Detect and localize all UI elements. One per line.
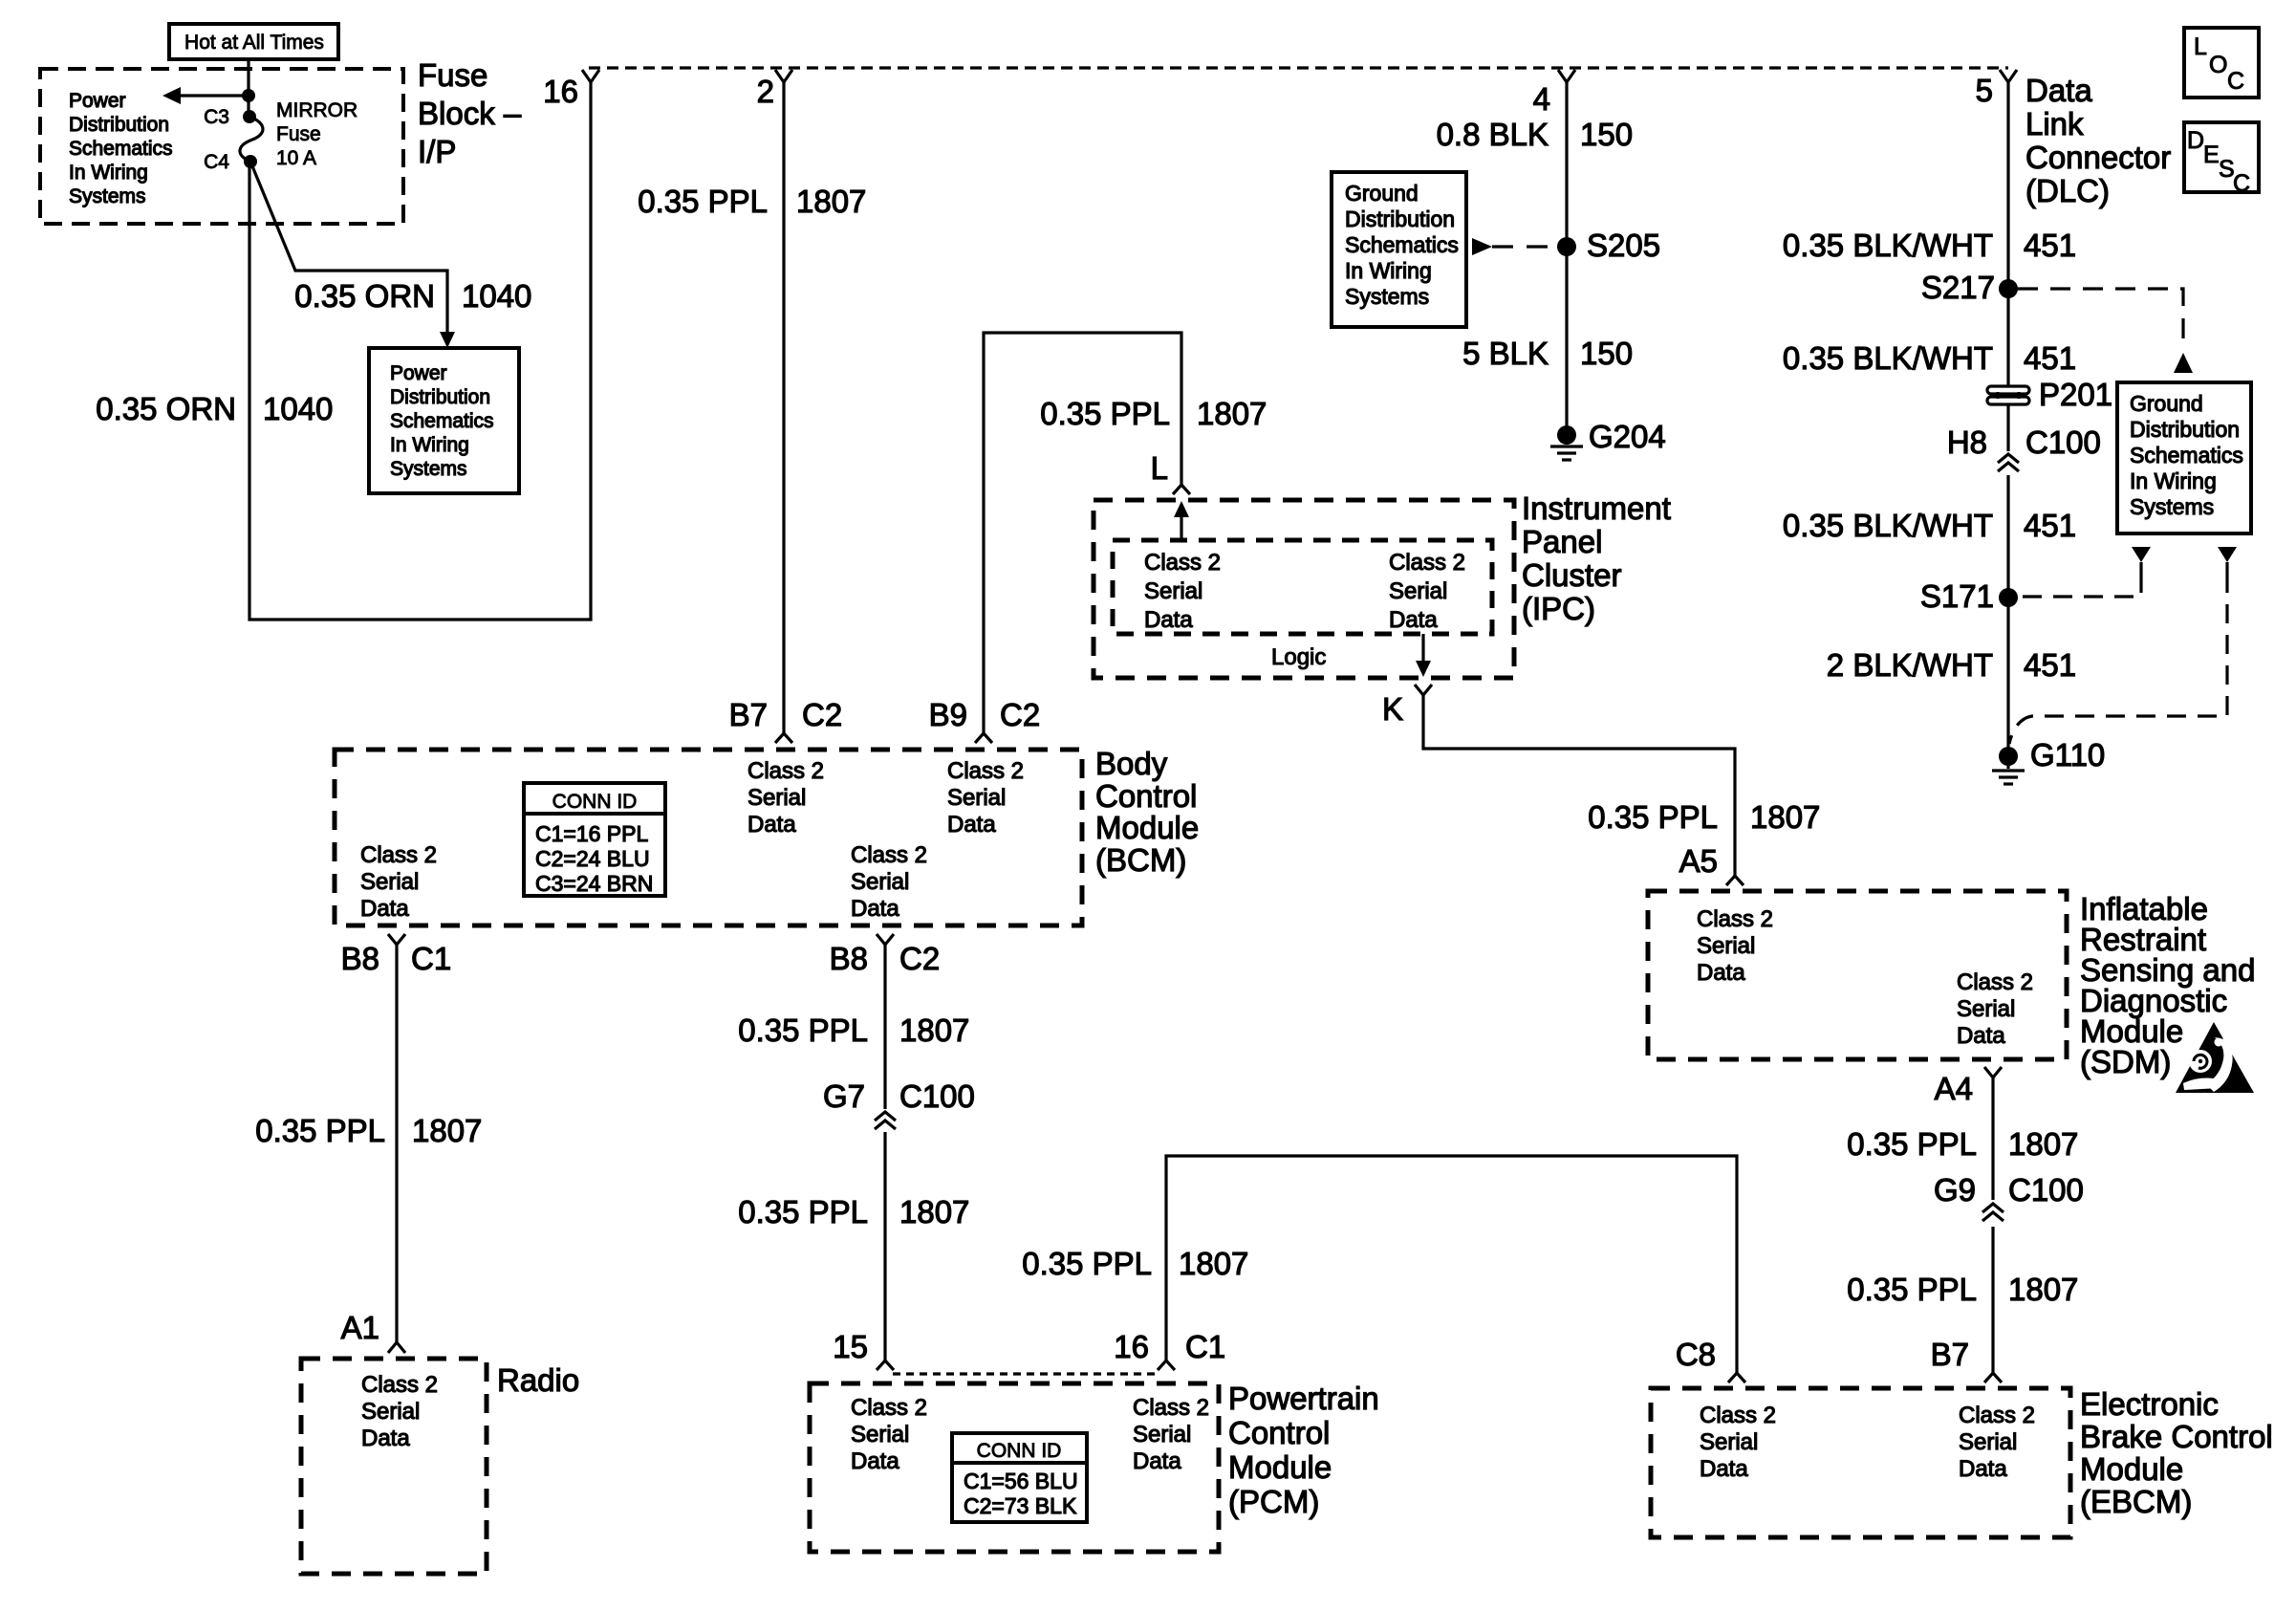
svg-text:1807: 1807	[899, 1194, 969, 1230]
dashed wire S217 to ground reference	[2018, 289, 2193, 373]
svg-text:C3=24 BRN: C3=24 BRN	[535, 871, 653, 896]
svg-text:Data: Data	[1957, 1023, 2005, 1049]
label 0.35 PPL 1807 (below G7)	[738, 1194, 969, 1230]
label 0.35 PPL 1807 (K to A5)	[1588, 799, 1820, 835]
svg-text:L: L	[2194, 33, 2207, 60]
svg-text:I/P: I/P	[418, 134, 456, 169]
svg-text:C1: C1	[1185, 1329, 1225, 1364]
label 0.35 PPL 1807 (above G7)	[738, 1012, 969, 1048]
label 0.35 BLK/WHT 451 (3)	[1783, 508, 2076, 543]
svg-text:CONN ID: CONN ID	[552, 791, 638, 813]
fuse block I/P dashed box	[40, 69, 403, 224]
svg-text:Data: Data	[360, 896, 409, 922]
svg-text:Data: Data	[1389, 607, 1438, 633]
svg-text:Serial: Serial	[1959, 1429, 2017, 1455]
svg-text:15: 15	[833, 1329, 868, 1364]
ground distribution reference box (right)	[2117, 382, 2251, 533]
splice S205	[1557, 228, 1660, 263]
power distribution reference target box	[369, 348, 519, 493]
svg-text:Serial: Serial	[1144, 578, 1202, 604]
svg-text:1807: 1807	[1197, 396, 1267, 431]
svg-text:0.35 BLK/WHT: 0.35 BLK/WHT	[1783, 508, 1993, 543]
wire C4 diagonal to reference arrow	[250, 162, 455, 348]
svg-text:0.35 BLK/WHT: 0.35 BLK/WHT	[1783, 228, 1993, 263]
IPC inner logic dashed box	[1113, 540, 1492, 634]
svg-text:Data: Data	[947, 812, 996, 838]
svg-text:0.35 PPL: 0.35 PPL	[738, 1194, 868, 1230]
svg-text:Data: Data	[1697, 960, 1745, 986]
svg-text:1807: 1807	[1179, 1246, 1248, 1281]
IPC class 2 serial data (left)	[1144, 550, 1221, 633]
svg-text:1807: 1807	[796, 184, 866, 219]
node C3	[204, 106, 256, 128]
svg-text:P201: P201	[2039, 377, 2112, 412]
svg-text:Data: Data	[2025, 73, 2092, 108]
svg-text:B7: B7	[729, 697, 768, 732]
svg-text:B9: B9	[929, 697, 967, 732]
svg-text:Module: Module	[2080, 1451, 2183, 1487]
BCM dashed box	[335, 750, 1082, 925]
svg-text:Systems: Systems	[1345, 284, 1429, 309]
svg-text:0.35 ORN: 0.35 ORN	[96, 391, 236, 426]
svg-text:A4: A4	[1935, 1071, 1973, 1106]
svg-text:1807: 1807	[412, 1113, 482, 1148]
svg-text:Power: Power	[69, 90, 126, 112]
svg-text:C: C	[2227, 68, 2244, 95]
pin 2 drop connector and wire to BCM B7	[757, 70, 792, 743]
svg-text:0.35 PPL: 0.35 PPL	[1040, 396, 1170, 431]
svg-text:In Wiring: In Wiring	[2130, 468, 2217, 493]
svg-text:Serial: Serial	[947, 785, 1006, 811]
svg-text:Electronic: Electronic	[2080, 1386, 2219, 1422]
svg-text:Serial: Serial	[1957, 996, 2015, 1022]
SDM dashed box	[1648, 891, 2067, 1059]
EBCM class 2 serial data (right)	[1959, 1403, 2035, 1482]
svg-text:Powertrain: Powertrain	[1228, 1381, 1379, 1416]
svg-text:451: 451	[2024, 508, 2076, 543]
node C4	[204, 151, 257, 173]
svg-text:Schematics: Schematics	[390, 410, 494, 432]
svg-text:Class 2: Class 2	[851, 1395, 927, 1421]
pin B8 C1 label	[341, 941, 452, 976]
svg-text:Control: Control	[1228, 1415, 1330, 1450]
ground G110	[1992, 737, 2105, 784]
in-line connector C100 pin G7	[823, 1078, 975, 1129]
svg-text:0.35 BLK/WHT: 0.35 BLK/WHT	[1783, 340, 1993, 376]
ground distribution reference box (left)	[1332, 172, 1466, 327]
svg-text:C2: C2	[899, 941, 940, 976]
svg-text:B7: B7	[1931, 1337, 1969, 1372]
pass-through grommet P201	[1987, 377, 2112, 412]
svg-text:Data: Data	[1144, 607, 1193, 633]
label 0.35 PPL 1807 (PCM 16)	[1022, 1246, 1248, 1281]
label 0.35 PPL 1807 (radio wire)	[255, 1113, 482, 1148]
svg-text:Systems: Systems	[69, 185, 146, 207]
svg-text:Instrument: Instrument	[1522, 490, 1671, 526]
pin 4 drop connector and ground wire	[1533, 70, 1575, 435]
svg-text:Distribution: Distribution	[2130, 417, 2240, 442]
svg-text:K: K	[1382, 691, 1403, 727]
PCM dashed box	[810, 1383, 1219, 1552]
svg-text:150: 150	[1580, 336, 1633, 371]
svg-text:451: 451	[2024, 228, 2076, 263]
label 0.35 ORN 1040 (upper)	[294, 278, 531, 314]
svg-text:Module: Module	[1095, 810, 1199, 845]
svg-text:E: E	[2203, 142, 2220, 168]
pin B8 C2 label	[830, 941, 941, 976]
svg-text:Class 2: Class 2	[1957, 969, 2033, 995]
svg-text:451: 451	[2024, 647, 2076, 683]
svg-text:Fuse: Fuse	[276, 123, 321, 145]
svg-text:O: O	[2209, 52, 2227, 78]
svg-text:Class 2: Class 2	[360, 842, 437, 868]
IPC internal arrow out of logic (K)	[1416, 634, 1431, 677]
svg-text:Class 2: Class 2	[1959, 1403, 2035, 1428]
svg-text:Serial: Serial	[360, 869, 419, 895]
svg-text:S205: S205	[1587, 228, 1660, 263]
svg-text:Class 2: Class 2	[1389, 550, 1465, 576]
label 0.35 PPL 1807 (pin 2)	[638, 184, 866, 219]
svg-text:A1: A1	[341, 1310, 379, 1345]
SDM class 2 serial data (bottom right)	[1957, 969, 2033, 1049]
svg-text:0.35 PPL: 0.35 PPL	[1847, 1272, 1977, 1307]
svg-text:Schematics: Schematics	[69, 138, 173, 160]
label 0.35 BLK/WHT 451 (1)	[1783, 228, 2076, 263]
BCM class 2 serial data (bottom middle)	[851, 842, 927, 922]
pin 16 drop connector	[543, 70, 599, 109]
svg-text:A5: A5	[1679, 843, 1718, 879]
ground G204	[1550, 419, 1666, 460]
svg-text:C1=16 PPL: C1=16 PPL	[535, 821, 648, 846]
svg-text:1040: 1040	[462, 278, 531, 314]
svg-text:In Wiring: In Wiring	[390, 434, 469, 456]
wire BCM B9 to IPC L	[975, 333, 1190, 743]
svg-text:Class 2: Class 2	[361, 1372, 438, 1398]
svg-text:CONN ID: CONN ID	[977, 1440, 1062, 1462]
IPC class 2 serial data (right)	[1389, 550, 1465, 633]
IPC outer dashed box	[1094, 500, 1514, 678]
svg-text:2: 2	[757, 74, 774, 109]
in-line connector C100 pin H8	[1947, 425, 2101, 471]
svg-text:Logic: Logic	[1271, 644, 1326, 670]
module label Electronic Brake Control Module (EBCM)	[2080, 1386, 2273, 1519]
svg-text:B8: B8	[341, 941, 379, 976]
svg-text:Distribution: Distribution	[390, 386, 490, 408]
svg-text:10 A: 10 A	[276, 147, 316, 169]
dashed drop arrow to S171	[2019, 547, 2151, 597]
pin B7 C2 label	[729, 697, 843, 732]
svg-text:Serial: Serial	[1697, 933, 1755, 959]
EBCM dashed box	[1651, 1388, 2070, 1537]
label 0.35 PPL 1807 (IPC L)	[1040, 396, 1267, 431]
svg-text:Power: Power	[390, 362, 447, 384]
DESC box	[2184, 122, 2259, 197]
module label Inflatable Restraint Sensing and Diagnostic Module (SDM)	[2080, 891, 2255, 1079]
PCM pin tie dashed line	[893, 1372, 1159, 1375]
svg-text:Data: Data	[747, 812, 796, 838]
arrow to power distribution text	[162, 87, 255, 104]
svg-text:Data: Data	[1700, 1456, 1748, 1482]
svg-text:0.35 PPL: 0.35 PPL	[1022, 1246, 1152, 1281]
EBCM class 2 serial data (left)	[1700, 1403, 1776, 1482]
svg-text:Schematics: Schematics	[1345, 232, 1459, 257]
svg-text:Serial: Serial	[361, 1399, 420, 1425]
svg-text:1807: 1807	[2008, 1272, 2078, 1307]
svg-text:(BCM): (BCM)	[1095, 842, 1186, 878]
svg-text:0.35 PPL: 0.35 PPL	[738, 1012, 868, 1048]
svg-text:Data: Data	[361, 1426, 410, 1451]
pin K connector and wire to SDM A5	[1382, 685, 1744, 885]
svg-text:G110: G110	[2030, 737, 2105, 773]
svg-text:C1=56 BLU: C1=56 BLU	[964, 1469, 1078, 1493]
svg-text:In Wiring: In Wiring	[1345, 258, 1432, 283]
svg-text:Module: Module	[1228, 1449, 1332, 1485]
svg-text:C4: C4	[204, 151, 229, 173]
svg-text:Class 2: Class 2	[1697, 906, 1773, 932]
svg-text:C2=24 BLU: C2=24 BLU	[535, 846, 650, 871]
BCM CONN ID table	[524, 783, 665, 896]
DLC ground wire (lower segment)	[2006, 475, 2009, 756]
label 0.35 ORN 1040 (lower)	[96, 391, 333, 426]
BCM class 2 serial data (left)	[360, 842, 437, 922]
svg-text:C3: C3	[204, 106, 229, 128]
svg-text:Block –: Block –	[418, 96, 522, 131]
svg-text:0.35 PPL: 0.35 PPL	[1847, 1126, 1977, 1162]
svg-text:1807: 1807	[2008, 1126, 2078, 1162]
wire PCM 16 to EBCM C8	[1158, 1156, 1745, 1382]
svg-text:0.35 ORN: 0.35 ORN	[294, 278, 435, 314]
svg-text:0.35 PPL: 0.35 PPL	[255, 1113, 385, 1148]
svg-text:Data: Data	[1133, 1448, 1181, 1474]
svg-text:Brake Control: Brake Control	[2080, 1419, 2273, 1454]
svg-text:Ground: Ground	[1345, 181, 1419, 206]
svg-text:S217: S217	[1921, 270, 1995, 305]
svg-text:Class 2: Class 2	[1133, 1395, 1209, 1421]
svg-text:Radio: Radio	[497, 1362, 579, 1398]
splice S171	[1920, 578, 2018, 614]
svg-text:Data: Data	[851, 1448, 899, 1474]
svg-text:In Wiring: In Wiring	[69, 162, 148, 184]
svg-text:(IPC): (IPC)	[1522, 591, 1595, 626]
label 5 BLK 150	[1462, 336, 1633, 371]
svg-text:G9: G9	[1934, 1172, 1976, 1208]
svg-text:C8: C8	[1676, 1337, 1716, 1372]
svg-text:C1: C1	[411, 941, 451, 976]
svg-text:Schematics: Schematics	[2130, 443, 2243, 468]
svg-text:C100: C100	[899, 1078, 975, 1114]
svg-text:Serial: Serial	[1133, 1422, 1191, 1448]
label 0.8 BLK 150	[1437, 117, 1633, 152]
svg-text:Class 2: Class 2	[851, 842, 927, 868]
svg-text:Class 2: Class 2	[747, 758, 824, 784]
pin B8 C1 connector and wire to Radio A1	[388, 934, 405, 1353]
label 0.35 PPL 1807 (A4)	[1847, 1126, 2078, 1162]
fuse MIRROR 10A	[240, 99, 357, 169]
svg-text:S171: S171	[1920, 578, 1994, 614]
svg-text:4: 4	[1533, 81, 1550, 117]
BCM class 2 serial data (under B9)	[947, 758, 1024, 838]
svg-text:16: 16	[543, 74, 578, 109]
svg-text:Systems: Systems	[390, 458, 467, 480]
svg-text:Systems: Systems	[2130, 494, 2214, 519]
IPC internal arrow into logic (L)	[1174, 501, 1189, 538]
svg-text:H8: H8	[1947, 425, 1987, 460]
PCM class 2 serial data (left)	[851, 1395, 927, 1474]
svg-text:0.35 PPL: 0.35 PPL	[638, 184, 768, 219]
svg-text:Serial: Serial	[747, 785, 806, 811]
airbag warning triangle	[2176, 1022, 2254, 1093]
svg-text:G7: G7	[823, 1078, 865, 1114]
svg-text:C100: C100	[2008, 1172, 2084, 1208]
svg-text:Ground: Ground	[2130, 391, 2203, 416]
svg-text:C: C	[2233, 170, 2250, 197]
module label Fuse Block - I/P	[418, 57, 522, 169]
svg-text:Class 2: Class 2	[1144, 550, 1221, 576]
svg-text:451: 451	[2024, 340, 2076, 376]
LOC box	[2184, 28, 2259, 98]
svg-text:L: L	[1151, 450, 1168, 486]
svg-text:1807: 1807	[1750, 799, 1820, 835]
PCM class 2 serial data (right)	[1133, 1395, 1209, 1474]
wire C4 down to pin16 riser	[249, 82, 591, 620]
svg-text:C100: C100	[2025, 425, 2101, 460]
svg-text:1807: 1807	[899, 1012, 969, 1048]
Hot at All Times label box	[169, 24, 338, 59]
svg-text:Serial: Serial	[1389, 578, 1447, 604]
svg-text:Control: Control	[1095, 778, 1197, 814]
label 0.35 PPL 1807 (EBCM B7)	[1847, 1272, 2078, 1307]
pin 16 C1 label	[1114, 1329, 1225, 1364]
svg-text:150: 150	[1580, 117, 1633, 152]
svg-text:Class 2: Class 2	[1700, 1403, 1776, 1428]
svg-text:MIRROR: MIRROR	[276, 99, 357, 121]
svg-text:C2=73 BLK: C2=73 BLK	[964, 1493, 1077, 1518]
Radio class 2 serial data	[361, 1372, 438, 1451]
svg-text:Link: Link	[2025, 106, 2084, 142]
svg-text:0.35 PPL: 0.35 PPL	[1588, 799, 1718, 835]
dashed drop wire to G110	[2009, 547, 2237, 744]
module label Instrument Panel Cluster (IPC)	[1522, 490, 1671, 626]
label 0.35 BLK/WHT 451 (2)	[1783, 340, 2076, 376]
svg-text:Serial: Serial	[851, 1422, 909, 1448]
splice S217	[1921, 270, 2018, 305]
svg-text:16: 16	[1114, 1329, 1149, 1364]
module label Body Control Module (BCM)	[1095, 746, 1199, 878]
svg-text:1040: 1040	[263, 391, 333, 426]
pin B9 C2 label	[929, 697, 1041, 732]
svg-text:Distribution: Distribution	[1345, 207, 1455, 231]
module label Data Link Connector (DLC)	[2025, 73, 2171, 208]
pin A4 connector and wire to EBCM B7	[1984, 1067, 2002, 1382]
svg-text:C2: C2	[1000, 697, 1040, 732]
module label Powertrain Control Module (PCM)	[1228, 1381, 1379, 1519]
svg-text:Data: Data	[1959, 1456, 2007, 1482]
svg-text:Serial: Serial	[851, 869, 909, 895]
svg-text:5 BLK: 5 BLK	[1462, 336, 1549, 371]
svg-text:D: D	[2187, 127, 2204, 154]
dashed arrow from box to S205	[1472, 238, 1558, 255]
svg-text:Fuse: Fuse	[418, 57, 487, 93]
wire from Hot at All Times to fuse	[247, 59, 249, 117]
svg-text:(SDM): (SDM)	[2080, 1044, 2171, 1079]
SDM class 2 serial data (top left)	[1697, 906, 1773, 986]
svg-text:Distribution: Distribution	[69, 114, 169, 136]
svg-text:Hot at All Times: Hot at All Times	[184, 32, 324, 54]
svg-text:(DLC): (DLC)	[2025, 173, 2110, 208]
svg-text:G204: G204	[1589, 419, 1666, 454]
BCM class 2 serial data (under B7)	[747, 758, 824, 838]
svg-text:B8: B8	[830, 941, 868, 976]
fuse block power distribution reference text	[69, 90, 173, 207]
svg-text:C2: C2	[802, 697, 842, 732]
svg-text:Serial: Serial	[1700, 1429, 1758, 1455]
DLC top dashed bus	[589, 66, 2008, 69]
svg-text:Panel: Panel	[1522, 524, 1602, 559]
svg-text:Body: Body	[1095, 746, 1168, 781]
svg-text:5: 5	[1976, 73, 1993, 108]
pin B8 C2 connector and wire to PCM 15	[877, 934, 894, 1370]
svg-text:Data: Data	[851, 896, 899, 922]
svg-text:(PCM): (PCM)	[1228, 1484, 1319, 1519]
svg-text:Cluster: Cluster	[1522, 557, 1622, 593]
Radio dashed box	[301, 1359, 487, 1574]
svg-text:Connector: Connector	[2025, 140, 2171, 175]
label 2 BLK/WHT 451	[1827, 647, 2076, 683]
PCM CONN ID table	[952, 1433, 1087, 1522]
svg-text:2 BLK/WHT: 2 BLK/WHT	[1827, 647, 1993, 683]
svg-text:Class 2: Class 2	[947, 758, 1024, 784]
pin 5 drop connector	[1976, 70, 2017, 108]
DLC ground wire (upper segment)	[2006, 82, 2009, 386]
svg-text:0.8 BLK: 0.8 BLK	[1437, 117, 1549, 152]
DLC ground wire (middle segment)	[2006, 405, 2009, 451]
svg-text:(EBCM): (EBCM)	[2080, 1484, 2192, 1519]
in-line connector C100 pin G9	[1934, 1172, 2084, 1221]
